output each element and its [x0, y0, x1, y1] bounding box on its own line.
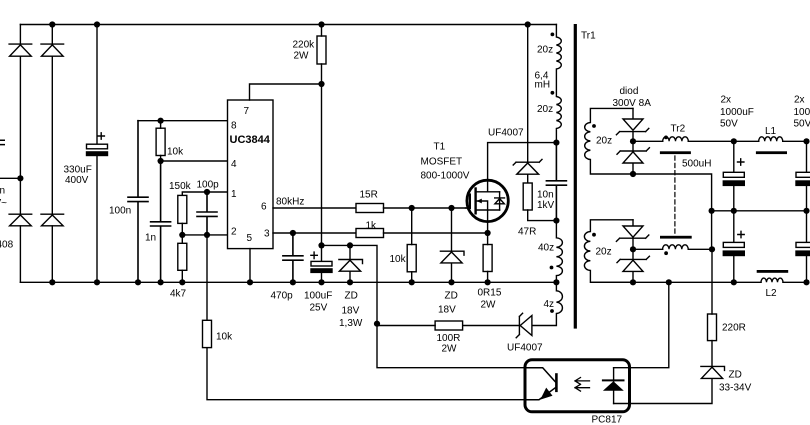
capacitor 100uF plus	[311, 252, 317, 258]
ground rail secondary	[591, 281, 761, 283]
node RtCt	[158, 158, 164, 164]
svg-text:2W: 2W	[294, 51, 310, 62]
svg-text:1k: 1k	[366, 221, 378, 232]
svg-text:2x: 2x	[794, 95, 805, 106]
transistor T1 substrate arrow	[477, 201, 488, 210]
svg-text:80kHz: 80kHz	[276, 197, 304, 208]
svg-text:2x: 2x	[721, 95, 732, 106]
node gnd j11	[448, 279, 454, 285]
svg-text:ZD: ZD	[445, 291, 458, 302]
node gnd2 d	[803, 279, 809, 285]
node top rail j3	[318, 21, 324, 27]
svg-text:15R: 15R	[360, 190, 378, 201]
capacitor 1000uF lower left plus	[738, 231, 744, 237]
svg-text:L2: L2	[766, 288, 778, 299]
resistor 220R	[708, 314, 717, 341]
wire feedback down	[207, 235, 525, 400]
optocoupler arrows	[575, 378, 590, 392]
svg-text:800-1000V: 800-1000V	[421, 171, 470, 182]
capacitor 330uF wire	[96, 25, 98, 283]
node gnd j13	[553, 279, 559, 285]
node out2	[709, 246, 715, 252]
resistor 10k feedback	[203, 320, 212, 347]
transistor T1 drain link	[476, 180, 500, 192]
node polarity dot p1	[551, 33, 555, 37]
node mid rail c	[803, 208, 809, 214]
transistor T1 body diode	[495, 192, 505, 210]
transformer Tr1 primary winding 20z+20z	[556, 25, 561, 143]
diode secondary D1 lower	[616, 220, 648, 250]
inductor Tr2 upper winding	[663, 137, 689, 142]
inductor L2	[761, 278, 783, 282]
svg-text:33-34V: 33-34V	[719, 383, 752, 394]
svg-text:100n: 100n	[109, 206, 131, 217]
node gnd2 b	[666, 279, 672, 285]
svg-text:3: 3	[264, 229, 270, 240]
node out1 r	[803, 138, 809, 144]
node gnd j2	[94, 279, 100, 285]
capacitor 100p	[197, 192, 217, 235]
svg-text:1000uF: 1000uF	[794, 107, 810, 118]
svg-text:1kV: 1kV	[537, 200, 555, 211]
svg-text:L1: L1	[765, 126, 777, 137]
svg-text:20z: 20z	[596, 247, 612, 258]
resistor 10k gate pulldown	[407, 245, 416, 272]
node source	[485, 230, 491, 236]
svg-text:T1: T1	[434, 142, 446, 153]
diode bridge D2	[41, 44, 64, 56]
svg-text:diod: diod	[620, 86, 639, 97]
wire AC input	[0, 177, 20, 179]
svg-text:40z: 40z	[538, 243, 554, 254]
transformer Tr1 secondary winding 20z upper	[585, 108, 633, 174]
svg-text:330uF: 330uF	[64, 165, 92, 176]
transistor T1 gate bar	[469, 195, 471, 209]
capacitor 330uF plates	[87, 144, 108, 149]
node gnd2 a	[630, 279, 636, 285]
node out1	[731, 138, 737, 144]
svg-text:8: 8	[231, 121, 237, 132]
transistor T1 MOSFET circle	[467, 180, 508, 221]
node Vref	[158, 118, 164, 124]
svg-text:100p: 100p	[197, 180, 220, 191]
wire gate inside	[466, 207, 470, 209]
zener ZD 18V 1.3W	[339, 245, 363, 282]
capacitor 1000uF lower right	[806, 211, 808, 282]
node mid rail b	[731, 208, 737, 214]
wire CS to source	[384, 232, 488, 234]
svg-text:ZD: ZD	[729, 370, 742, 381]
node gnd j1	[49, 279, 55, 285]
node mid rail a	[709, 208, 715, 214]
svg-text:25V: 25V	[310, 303, 328, 314]
IC UC3844 body	[228, 100, 274, 249]
capacitor 1000uF upper left	[733, 141, 735, 211]
svg-text:100R: 100R	[437, 333, 461, 344]
svg-text:4z: 4z	[544, 299, 555, 310]
svg-text:4k7: 4k7	[170, 289, 187, 300]
svg-text:6: 6	[261, 202, 267, 213]
wire pin4	[161, 160, 228, 162]
svg-text:500uH: 500uH	[682, 159, 711, 170]
node gate a	[409, 205, 415, 211]
svg-text:1,3W: 1,3W	[339, 318, 363, 329]
svg-text:7: 7	[244, 106, 250, 117]
node top rail j4	[525, 21, 531, 27]
svg-text:20z: 20z	[537, 45, 553, 56]
diode secondary D2 lower	[617, 249, 649, 282]
optocoupler phototransistor	[525, 368, 555, 400]
node AC1	[17, 175, 23, 181]
resistor 100R 2W	[435, 321, 463, 330]
svg-text:UC3844: UC3844	[230, 134, 271, 146]
svg-text:10n: 10n	[537, 190, 554, 201]
svg-text:10k: 10k	[167, 147, 184, 158]
transformer Tr1 winding 40z	[556, 221, 562, 283]
wire VCC node	[322, 245, 378, 323]
wire bridge leg2	[51, 25, 53, 283]
capacitor 1000uF upper right	[806, 141, 808, 211]
node polarity dot p2	[551, 91, 555, 95]
transformer Tr1 core	[574, 24, 577, 329]
svg-text:Tr1: Tr1	[581, 31, 596, 42]
node gnd j9	[347, 279, 353, 285]
node VCC b	[347, 242, 353, 248]
node gnd j12	[485, 279, 491, 285]
node gnd j6	[247, 279, 253, 285]
svg-text:150k: 150k	[169, 181, 192, 192]
optocoupler LED	[613, 368, 615, 404]
optocoupler PC817 box	[525, 360, 630, 412]
wire Tr2 lower to node	[688, 248, 712, 250]
node polarity dot s1	[592, 124, 596, 128]
transistor T1 source link	[476, 210, 500, 222]
svg-text:470p: 470p	[271, 291, 294, 302]
node polarity dot t1	[664, 136, 668, 140]
wire L1 to right cap	[783, 140, 807, 142]
capacitor 10n 1kV	[546, 143, 566, 221]
node gnd2 c	[731, 279, 737, 285]
svg-text:20z: 20z	[596, 136, 612, 147]
node polarity dot t2	[664, 251, 668, 255]
capacitor 1000uF lower left	[733, 211, 735, 282]
svg-text:MOSFET: MOSFET	[421, 157, 463, 168]
node gate b	[448, 205, 454, 211]
diode bridge D4	[41, 214, 64, 226]
svg-text:mH: mH	[535, 80, 551, 91]
wire top HV rail	[20, 24, 556, 26]
node VCC top	[318, 81, 324, 87]
node gnd j4	[158, 279, 164, 285]
diode secondary D2 upper	[617, 141, 649, 174]
inductor L1 core	[756, 151, 787, 154]
capacitor 100n	[128, 121, 148, 283]
svg-text:ZD: ZD	[345, 291, 358, 302]
svg-text:0R15: 0R15	[478, 288, 502, 299]
inductor Tr2 upper core	[660, 151, 691, 154]
svg-text:18V: 18V	[438, 305, 456, 316]
svg-text:10k: 10k	[390, 254, 407, 265]
svg-text:18V: 18V	[342, 306, 360, 317]
wire pin8 Vref	[138, 120, 228, 122]
inductor L1	[759, 137, 783, 142]
ground rail primary	[20, 281, 556, 283]
resistor 150k	[178, 195, 187, 223]
label mains fragment =	[0, 140, 5, 144]
resistor 15R	[356, 204, 384, 213]
node top rail j1	[49, 21, 55, 27]
svg-text:4: 4	[231, 159, 237, 170]
node drain	[553, 140, 559, 146]
svg-text:100uF: 100uF	[304, 291, 332, 302]
svg-text:50V: 50V	[720, 119, 738, 130]
transistor T1 channel bar	[474, 189, 476, 214]
diode secondary D1 upper	[616, 108, 648, 141]
diode bridge D3	[9, 214, 32, 226]
wire pin3 CS	[273, 232, 356, 234]
node sec upper ret	[630, 171, 636, 177]
wire pin2	[182, 234, 227, 236]
mid rail upper output	[712, 210, 807, 212]
wire pin1	[182, 192, 227, 195]
node polarity dot p3	[550, 266, 554, 270]
zener ZD 18V gate	[440, 208, 464, 282]
svg-text:PC817: PC817	[592, 415, 623, 425]
inductor Tr2 lower winding	[663, 245, 689, 250]
node pin2 b	[204, 232, 210, 238]
diode bridge D1	[9, 44, 32, 56]
optocoupler LED wires inside	[614, 368, 630, 404]
node CS	[290, 230, 296, 236]
svg-text:2W: 2W	[481, 300, 497, 311]
node clamp	[553, 218, 559, 224]
wire aux to opto collector	[377, 324, 525, 368]
wire L2 to right	[783, 281, 807, 283]
svg-text:5: 5	[247, 233, 253, 244]
wire output rail upper	[633, 140, 663, 142]
inductor Tr2 lower core	[660, 236, 692, 239]
node top rail j2	[94, 21, 100, 27]
svg-text:400V: 400V	[65, 175, 89, 186]
node gnd j10	[409, 279, 415, 285]
svg-text:1n: 1n	[145, 233, 156, 244]
svg-text:10k: 10k	[216, 332, 233, 343]
zener ZD 33-34V	[631, 366, 725, 403]
wire to output cap	[688, 140, 758, 142]
node sec lower mid	[630, 246, 636, 252]
capacitor 1n timing	[151, 161, 171, 282]
svg-text:2: 2	[231, 227, 237, 238]
wire lower output	[633, 248, 663, 250]
resistor 4k7	[178, 243, 187, 270]
transformer Tr1 winding 4z	[532, 282, 562, 325]
node sec upper mid	[630, 138, 636, 144]
node pin2 a	[179, 232, 185, 238]
svg-text:UF4007: UF4007	[488, 128, 524, 139]
dashed coupling Tr2	[674, 156, 676, 235]
wire gate	[384, 207, 468, 209]
capacitor 330uF plus	[98, 133, 104, 139]
node pin1	[204, 189, 210, 195]
wire pin5 ground	[249, 249, 251, 283]
inductor L2 core	[757, 270, 789, 273]
resistor 47R	[523, 183, 532, 210]
resistor 10k timing	[156, 128, 165, 155]
wire secondary return upper	[633, 174, 712, 211]
svg-text:50V: 50V	[794, 119, 810, 130]
wire bridge leg1	[19, 25, 21, 283]
svg-text:47R: 47R	[518, 227, 536, 238]
wire drain	[488, 143, 557, 181]
node gnd j8	[318, 279, 324, 285]
resistor 1k	[356, 229, 384, 238]
svg-text:UF4007: UF4007	[507, 343, 543, 354]
wire opto LED anode	[630, 282, 669, 367]
wire snubber drop	[527, 25, 529, 162]
capacitor 470p	[283, 233, 303, 282]
svg-text:n: n	[0, 186, 5, 197]
svg-text:220k: 220k	[293, 40, 316, 51]
wire mid rail down	[711, 211, 713, 250]
resistor 220k startup	[317, 36, 326, 64]
resistor 0R15 shunt	[483, 245, 492, 272]
diode UF4007 snubber	[513, 159, 542, 183]
svg-text:Tr2: Tr2	[671, 124, 686, 135]
node polarity dot p4	[550, 309, 554, 313]
svg-text:20z: 20z	[537, 104, 553, 115]
svg-text:220R: 220R	[722, 323, 746, 334]
node VCC a	[318, 242, 324, 248]
node gnd j7	[290, 279, 296, 285]
svg-text:408: 408	[0, 240, 14, 251]
capacitor 100uF VCC	[321, 245, 323, 282]
capacitor 1000uF upper left plus	[738, 159, 744, 165]
svg-text:1: 1	[231, 189, 237, 200]
svg-text:2W: 2W	[442, 344, 458, 355]
wire pin6 gate drive	[273, 207, 356, 209]
node gnd j5	[179, 279, 185, 285]
node aux feed	[374, 321, 380, 327]
transformer Tr1 secondary winding 20z lower	[584, 220, 633, 282]
diode UF4007 aux	[463, 313, 532, 337]
svg-text:V~: V~	[0, 198, 7, 209]
svg-text:300V 8A: 300V 8A	[613, 98, 652, 109]
node gnd j3	[135, 279, 141, 285]
svg-text:1000uF: 1000uF	[720, 107, 754, 118]
node polarity dot s2	[592, 233, 596, 237]
wire pin7 VCC	[250, 84, 322, 100]
